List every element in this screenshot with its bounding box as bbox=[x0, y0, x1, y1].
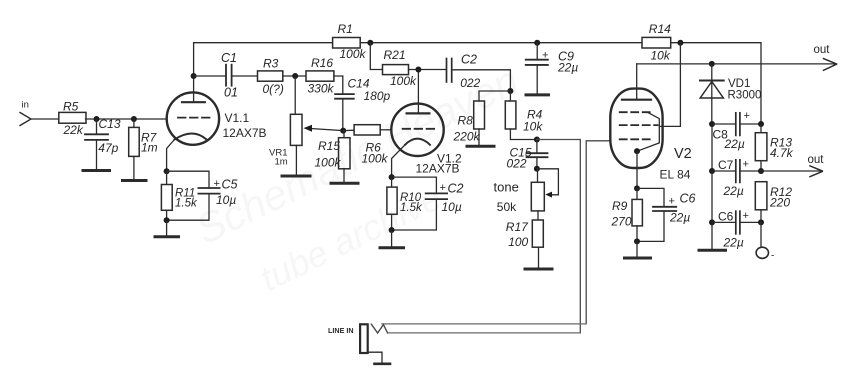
svg-text:220k: 220k bbox=[453, 130, 481, 144]
resistor R7 bbox=[129, 119, 140, 180]
svg-text:C5: C5 bbox=[222, 177, 238, 191]
resistor R4 bbox=[505, 91, 537, 140]
resistor R13 bbox=[755, 124, 767, 171]
node junction C15 bottom / tone pot bbox=[534, 166, 540, 172]
node junction R1 right bbox=[367, 40, 373, 46]
diode VD1 bbox=[700, 64, 724, 124]
wire V2 grid to jack switch (long) bbox=[586, 141, 610, 324]
capacitor C9 bbox=[526, 43, 548, 94]
node V1.1 cathode junction bbox=[164, 168, 170, 174]
svg-text:C13: C13 bbox=[99, 117, 121, 131]
svg-text:330k: 330k bbox=[308, 82, 335, 96]
wire jack tip horizontal bbox=[388, 332, 581, 334]
wire R14 right / down to C8 node bbox=[671, 43, 761, 124]
svg-text:22µ: 22µ bbox=[724, 137, 745, 151]
svg-text:0(?): 0(?) bbox=[263, 82, 284, 96]
resistor R12 bbox=[755, 182, 767, 223]
ground VR1 bbox=[282, 175, 310, 178]
tube V2 grid g1 (dashed) bbox=[620, 138, 651, 140]
svg-text:R3: R3 bbox=[263, 57, 279, 71]
svg-text:12AX7B: 12AX7B bbox=[416, 162, 460, 176]
wire V2 screen grid internal bus to cathode bbox=[637, 112, 659, 151]
svg-text:50k: 50k bbox=[497, 200, 517, 214]
wire ground rail left of filter caps bbox=[711, 124, 713, 249]
svg-text:R14: R14 bbox=[649, 22, 671, 36]
tube V2 anode plate bbox=[622, 99, 651, 101]
svg-text:022: 022 bbox=[460, 76, 480, 90]
potentiometer tone 50k bbox=[531, 169, 544, 220]
wire jack switch horizontal bbox=[382, 323, 586, 325]
node junction C6 right bbox=[758, 219, 764, 225]
node output terminal bbox=[756, 222, 768, 258]
svg-text:VD1: VD1 bbox=[728, 78, 750, 90]
ground filter rail bbox=[699, 249, 726, 252]
node junction R21/V1.2 anode bbox=[415, 67, 421, 73]
tube V1.2 anode plate bbox=[407, 112, 430, 114]
svg-text:220: 220 bbox=[769, 196, 790, 210]
capacitor C1 bbox=[194, 65, 258, 86]
wire VR1 wiper with arrow bbox=[304, 125, 344, 132]
capacitor C8 bbox=[712, 113, 761, 136]
node out1 arrow bbox=[824, 59, 837, 71]
node junction C14/R15/R6 bbox=[340, 128, 346, 134]
svg-text:R17: R17 bbox=[506, 220, 529, 234]
svg-text:22µ: 22µ bbox=[669, 211, 690, 225]
node out2 arrow bbox=[810, 166, 822, 177]
connector LINE IN jack tip/switch contacts bbox=[371, 324, 387, 333]
potentiometer VR1 bbox=[290, 76, 302, 175]
svg-text:22µ: 22µ bbox=[723, 184, 744, 198]
ground R9 bbox=[625, 241, 651, 258]
svg-text:1m: 1m bbox=[275, 157, 288, 168]
node junction C7 right / out2 bbox=[758, 168, 764, 174]
node junction R8/R4 top bbox=[507, 88, 513, 94]
svg-text:C7: C7 bbox=[718, 158, 734, 172]
svg-text:C6: C6 bbox=[680, 192, 696, 206]
resistor R17 bbox=[532, 220, 543, 268]
resistor R6 bbox=[343, 125, 391, 135]
svg-text:100: 100 bbox=[508, 235, 528, 249]
tube V1.1 cathode arc bbox=[175, 134, 207, 140]
svg-text:12AX7B: 12AX7B bbox=[223, 126, 267, 140]
svg-text:100k: 100k bbox=[340, 47, 367, 61]
svg-text:C1: C1 bbox=[221, 51, 237, 65]
svg-text:100k: 100k bbox=[315, 156, 342, 170]
node V1.1 cathode bottom junction bbox=[164, 217, 170, 223]
svg-text:V2: V2 bbox=[674, 146, 692, 162]
wire rail R1 to R14 bbox=[360, 42, 642, 44]
ground R7 bbox=[123, 179, 147, 182]
capacitor C2 (coupling) bbox=[447, 59, 511, 91]
node junction C8 left bbox=[709, 121, 715, 127]
wire tone wiper with arrow bbox=[537, 169, 559, 198]
ground R11 bbox=[155, 220, 179, 237]
capacitor C6 (cathode bypass V2) bbox=[637, 188, 676, 241]
tube V1.1 grid (dashed) bbox=[178, 117, 210, 119]
svg-text:10µ: 10µ bbox=[216, 193, 236, 207]
svg-text:C2: C2 bbox=[448, 182, 464, 196]
resistor R16 bbox=[306, 71, 343, 94]
tube V1.2 envelope bbox=[391, 104, 443, 156]
svg-text:LINE IN: LINE IN bbox=[328, 326, 354, 335]
ground R10 bbox=[380, 230, 404, 248]
node junction R5/C13 bbox=[94, 116, 100, 122]
capacitor C7 bbox=[712, 160, 761, 183]
svg-text:+: + bbox=[744, 110, 750, 122]
svg-text:10k: 10k bbox=[651, 49, 671, 63]
tube V2 grid g2 (dashed) bbox=[620, 111, 651, 113]
svg-text:R3000: R3000 bbox=[728, 90, 762, 102]
svg-text:R5: R5 bbox=[63, 100, 79, 114]
watermark bbox=[188, 56, 525, 299]
wire input to R5 bbox=[31, 118, 59, 120]
svg-text:+: + bbox=[669, 196, 675, 208]
wire V2 screen exit to R14 node bbox=[659, 43, 680, 127]
node junction C6 left bbox=[709, 219, 715, 225]
svg-text:EL 84: EL 84 bbox=[660, 168, 691, 182]
svg-text:+: + bbox=[214, 178, 220, 190]
node junction R3/R16/VR1 bbox=[292, 73, 298, 79]
svg-text:-: - bbox=[771, 251, 774, 262]
svg-text:out: out bbox=[808, 154, 825, 166]
capacitor C6 (output) bbox=[712, 211, 761, 234]
svg-text:R9: R9 bbox=[612, 199, 628, 213]
wire V2 anode up to out line bbox=[636, 64, 638, 100]
node junction R5/R7 bbox=[131, 116, 137, 122]
wire V1.1 anode up to rail bbox=[193, 43, 195, 102]
wire V1.1 cathode lead bbox=[167, 140, 175, 172]
tube V1.1 envelope bbox=[167, 92, 219, 144]
capacitor C13 bbox=[85, 119, 108, 170]
tube V1.2 grid (dashed) bbox=[403, 128, 435, 130]
svg-text:100k: 100k bbox=[362, 152, 389, 166]
node junction C7 left bbox=[709, 168, 715, 174]
svg-text:22µ: 22µ bbox=[557, 61, 578, 75]
ground C9 bbox=[526, 93, 549, 96]
svg-text:1.5k: 1.5k bbox=[400, 202, 423, 214]
svg-text:10µ: 10µ bbox=[442, 200, 462, 214]
node in (input jack arrow) bbox=[20, 113, 31, 126]
node V2 cathode bottom junction bbox=[634, 238, 640, 244]
svg-text:+: + bbox=[743, 159, 749, 171]
svg-text:+: + bbox=[542, 50, 548, 62]
svg-text:022: 022 bbox=[507, 157, 527, 171]
svg-text:22µ: 22µ bbox=[723, 236, 744, 250]
resistor R15 bbox=[339, 131, 351, 183]
node V1.2 cathode bottom junction bbox=[389, 227, 395, 233]
wire R5 to V1.1 grid bbox=[86, 118, 167, 120]
capacitor C2 (cathode bypass V1.2) bbox=[392, 177, 448, 230]
wire top rail (B+) bbox=[194, 42, 333, 44]
svg-text:22k: 22k bbox=[63, 123, 84, 137]
wire V1.2 anode up bbox=[417, 70, 419, 114]
resistor R1 bbox=[333, 38, 361, 49]
wire out line 2 bbox=[761, 170, 821, 172]
svg-text:4.7k: 4.7k bbox=[770, 146, 794, 160]
svg-text:47p: 47p bbox=[98, 141, 118, 155]
svg-text:10k: 10k bbox=[523, 119, 543, 133]
wire C15 node to jack tip (long) bbox=[537, 140, 580, 333]
ground R8 bbox=[467, 145, 494, 148]
tube V1.1 anode plate bbox=[182, 101, 205, 103]
ground R17 bbox=[525, 268, 552, 271]
ground C13 bbox=[83, 169, 110, 172]
node V2 cathode junction bbox=[634, 185, 640, 191]
svg-text:V1.1: V1.1 bbox=[225, 111, 250, 125]
svg-text:R21: R21 bbox=[384, 48, 406, 62]
svg-text:180p: 180p bbox=[364, 89, 391, 103]
resistor R8 bbox=[474, 91, 511, 145]
capacitor C5 bbox=[167, 171, 220, 220]
svg-text:in: in bbox=[22, 100, 29, 111]
svg-text:100k: 100k bbox=[390, 74, 417, 88]
tube V2 grid g3 (dashed) bbox=[620, 124, 658, 126]
wire V2 cathode down bbox=[636, 151, 638, 188]
svg-text:out: out bbox=[814, 44, 831, 56]
node junction R4 bottom / C15 top bbox=[534, 137, 540, 143]
svg-text:1.5k: 1.5k bbox=[175, 198, 198, 210]
svg-text:R15: R15 bbox=[318, 139, 340, 153]
tube V1.2 cathode arc bbox=[405, 139, 430, 145]
node V1.2 cathode junction bbox=[389, 174, 395, 180]
resistor R11 bbox=[161, 171, 172, 220]
svg-text:tone: tone bbox=[494, 180, 519, 195]
resistor R9 bbox=[632, 188, 642, 241]
tube V2 envelope bbox=[610, 89, 662, 168]
svg-text:1m: 1m bbox=[141, 141, 158, 155]
wire V1.2 cathode lead bbox=[392, 145, 405, 177]
svg-text:R16: R16 bbox=[311, 56, 333, 70]
resistor R3 bbox=[258, 71, 307, 81]
svg-text:C2: C2 bbox=[461, 53, 477, 67]
wire out line 1 bbox=[637, 63, 836, 65]
svg-text:+: + bbox=[743, 210, 749, 222]
capacitor C15 bbox=[527, 140, 548, 169]
ground LINE IN jack bbox=[368, 352, 390, 364]
svg-text:R1: R1 bbox=[338, 22, 353, 36]
svg-text:270: 270 bbox=[611, 215, 632, 229]
svg-text:R8: R8 bbox=[458, 114, 474, 128]
ground R15 bbox=[331, 182, 358, 185]
capacitor C14 bbox=[335, 94, 354, 131]
svg-text:01: 01 bbox=[224, 86, 238, 100]
connector LINE IN jack body bbox=[360, 324, 368, 353]
svg-text:+: + bbox=[440, 182, 446, 194]
resistor R10 bbox=[387, 177, 397, 230]
svg-text:C6: C6 bbox=[718, 210, 734, 224]
node V2 cathode bbox=[634, 148, 640, 154]
resistor R21 bbox=[370, 43, 446, 75]
node anode/C1 junction bbox=[191, 73, 197, 79]
node junction VD1 top bbox=[709, 61, 715, 67]
node junction C9 top bbox=[534, 40, 540, 46]
node junction R14 right bbox=[677, 40, 683, 46]
resistor R14 bbox=[642, 37, 671, 48]
node junction C8 right bbox=[758, 121, 764, 127]
resistor R5 bbox=[59, 112, 86, 123]
